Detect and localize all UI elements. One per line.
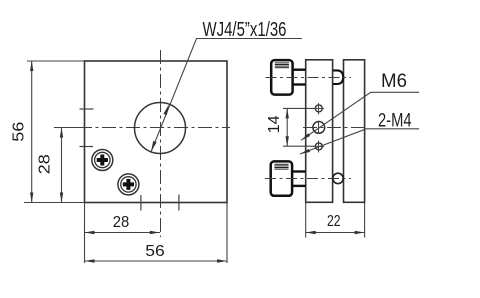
dimension 22 (306, 232, 365, 234)
leader 2-M4 (300, 129, 419, 154)
screw tip of K1 between plates (333, 70, 343, 84)
svg-text:M6: M6 (381, 71, 407, 92)
side view left plate (306, 60, 333, 203)
node: axis of knob K2 (265, 178, 351, 180)
knob K2 (bottom adjustment knob) (271, 161, 292, 195)
leader line WJ4/5"x1/36 (151, 39, 302, 153)
svg-text:22: 22 (327, 213, 341, 230)
svg-text:14: 14 (266, 115, 283, 133)
screw S2 (phillips head) (118, 174, 139, 195)
knob K1 knurl lines (275, 63, 289, 68)
svg-text:WJ4/5”x1/36: WJ4/5”x1/36 (203, 19, 287, 41)
node: horizontal centerline of front view (54, 127, 230, 129)
node: bottom hole tick 1 (140, 195, 142, 211)
dimension 56 bottom (85, 260, 228, 262)
knob K1 (top adjustment knob) (271, 60, 292, 95)
wire: left plate extension below (305, 202, 307, 237)
wire: extension line at optical axis for 28 dim (55, 127, 85, 129)
hole M6 (center) (313, 122, 325, 134)
svg-text:2-M4: 2-M4 (378, 111, 412, 132)
screw S1 (phillips head) (92, 150, 113, 171)
knob K2 knurl lines (274, 164, 288, 169)
hole H2 (bottom M4) (315, 143, 322, 150)
node: side hole tick on left edge (lower) (80, 146, 94, 148)
knob K1 shaft (292, 68, 305, 70)
dimension 14 (283, 107, 316, 109)
wire: left edge extension below (84, 203, 86, 264)
wire: right edge extension below (226, 203, 228, 264)
hole H1 (top M4) (315, 105, 322, 112)
ball between plates (333, 173, 343, 183)
node: vertical centerline of front view (160, 50, 162, 237)
front plate outline (56x56 square body) (85, 61, 228, 203)
node: axis of knob K1 (266, 77, 352, 79)
wire: bottom edge extension line to left (24, 202, 85, 204)
dimension 56 left vertical line (31, 61, 33, 203)
wire: top edge extension line to left (27, 60, 85, 62)
svg-text:56: 56 (11, 122, 28, 142)
dimension 28 bottom (85, 232, 161, 234)
node: optical axis of side view (303, 127, 365, 129)
wire: right plate extension below (364, 202, 366, 237)
node: bottom hole tick 2 (178, 195, 180, 211)
side view right plate (344, 60, 365, 203)
leader M6 (301, 92, 419, 140)
dimension 28 left vertical line (61, 128, 63, 203)
knob K2 shaft (292, 170, 306, 172)
lens aperture circle (135, 103, 186, 154)
node: side hole tick on left edge (upper) (80, 108, 94, 110)
svg-text:28: 28 (36, 154, 53, 174)
svg-text:28: 28 (113, 214, 130, 231)
svg-text:56: 56 (145, 243, 165, 260)
